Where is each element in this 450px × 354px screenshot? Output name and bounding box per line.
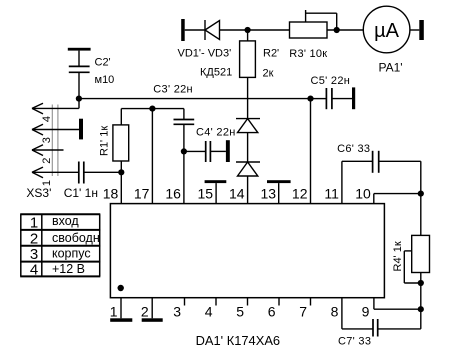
node G bbox=[181, 148, 187, 154]
svg-text:C3' 22н: C3' 22н bbox=[153, 84, 193, 96]
capacitor C3' bbox=[174, 109, 195, 204]
svg-text:15: 15 bbox=[198, 185, 214, 201]
node A bbox=[245, 27, 251, 33]
svg-text:R3' 10к: R3' 10к bbox=[289, 48, 327, 60]
label C2' bbox=[95, 56, 115, 86]
label uA bbox=[374, 20, 400, 42]
pin 7 stub bbox=[310, 298, 312, 306]
pin 10 lead bbox=[374, 194, 421, 204]
label R2' bbox=[263, 47, 280, 79]
svg-text:R2': R2' bbox=[263, 47, 279, 59]
terminal bar right of C4' bbox=[226, 140, 230, 162]
node H bbox=[418, 191, 424, 197]
svg-text:2: 2 bbox=[41, 158, 53, 164]
IC DA1' body bbox=[110, 204, 384, 298]
svg-text:+12 В: +12 В bbox=[52, 262, 85, 276]
label C3' bbox=[153, 84, 193, 96]
capacitor C1' bbox=[79, 162, 122, 184]
node E bbox=[118, 169, 124, 175]
node D bbox=[307, 96, 313, 102]
capacitor C7' bbox=[373, 319, 421, 337]
svg-text:XS3': XS3' bbox=[26, 186, 51, 200]
XS3' pin number 3 bbox=[41, 137, 53, 143]
terminal bar top-left bbox=[181, 19, 185, 41]
node F bbox=[149, 106, 155, 112]
XS3' pin number 1 bbox=[41, 180, 53, 186]
svg-text:3: 3 bbox=[41, 137, 53, 143]
svg-text:R4' 1к: R4' 1к bbox=[392, 241, 404, 271]
svg-text:18: 18 bbox=[103, 185, 119, 201]
svg-text:C1' 1н: C1' 1н bbox=[64, 186, 98, 200]
svg-text:9: 9 bbox=[362, 304, 370, 320]
terminal bar right of C5' bbox=[352, 87, 355, 109]
svg-text:4: 4 bbox=[41, 116, 53, 122]
label R3' bbox=[289, 48, 327, 60]
label XS3' bbox=[26, 186, 51, 200]
IC top pin numbers bbox=[103, 185, 371, 201]
svg-text:10: 10 bbox=[355, 185, 371, 201]
node B bbox=[334, 27, 340, 33]
pin 8 lead bbox=[342, 298, 373, 329]
pin 5 stub bbox=[247, 298, 249, 306]
label PA1' bbox=[379, 61, 403, 75]
svg-text:1: 1 bbox=[30, 215, 38, 232]
node J bbox=[418, 306, 424, 312]
pin 1 marker dot bbox=[118, 285, 124, 291]
label C5' bbox=[311, 75, 351, 87]
svg-text:13: 13 bbox=[261, 185, 277, 201]
table XS3 pinout bbox=[20, 214, 100, 276]
XS3' pin 4 bbox=[32, 103, 79, 114]
label R1' bbox=[99, 126, 111, 156]
label C1' bbox=[64, 186, 98, 200]
XS3' pin number 4 bbox=[41, 116, 53, 122]
svg-text:4: 4 bbox=[30, 262, 38, 279]
svg-text:C2': C2' bbox=[95, 56, 111, 68]
label C4' bbox=[196, 126, 236, 138]
terminal bar above C2' bbox=[68, 48, 91, 51]
pin 2 lead bbox=[151, 298, 153, 319]
pin 9 lead bbox=[374, 298, 421, 310]
svg-text:свободн: свободн bbox=[52, 231, 100, 245]
resistor R1' bbox=[113, 109, 129, 173]
diode VD2' bbox=[236, 119, 260, 162]
svg-text:C6' 33: C6' 33 bbox=[337, 143, 370, 155]
wire bbox=[185, 29, 205, 31]
wire net A bbox=[79, 98, 311, 100]
wire bbox=[410, 29, 419, 31]
XS3' pin number 2 bbox=[41, 158, 53, 164]
svg-text:C5' 22н: C5' 22н bbox=[311, 75, 351, 87]
IC bottom pin numbers bbox=[110, 304, 370, 320]
label C7' bbox=[338, 336, 371, 348]
node C bbox=[76, 96, 82, 102]
terminal bar pin 13 bbox=[267, 180, 291, 203]
pin 12 lead bbox=[310, 99, 312, 204]
svg-text:µА: µА bbox=[374, 20, 400, 42]
label C6' bbox=[337, 143, 370, 155]
pin 1 lead bbox=[120, 298, 122, 319]
pin 3 stub bbox=[184, 298, 186, 306]
right rail bbox=[420, 161, 422, 329]
wire bbox=[220, 29, 290, 31]
resistor R4' bbox=[404, 235, 429, 283]
pin 18 lead bbox=[120, 172, 122, 203]
diode VD3' bbox=[236, 162, 260, 204]
XS3' pin 1 bbox=[32, 167, 79, 178]
capacitor C5' bbox=[311, 88, 353, 109]
svg-text:6: 6 bbox=[268, 304, 276, 320]
svg-text:14: 14 bbox=[229, 185, 245, 201]
resistor R3' bbox=[290, 10, 337, 38]
svg-text:3: 3 bbox=[173, 304, 181, 320]
svg-text:DA1' К174ХА6: DA1' К174ХА6 bbox=[196, 333, 281, 348]
capacitor C6' bbox=[373, 151, 421, 173]
svg-text:2к: 2к bbox=[263, 67, 274, 79]
svg-text:4: 4 bbox=[205, 304, 213, 320]
wire bbox=[327, 29, 363, 31]
svg-text:R1' 1к: R1' 1к bbox=[99, 126, 111, 156]
svg-text:1: 1 bbox=[41, 180, 53, 186]
svg-text:VD1'- VD3': VD1'- VD3' bbox=[178, 48, 232, 60]
svg-text:корпус: корпус bbox=[52, 246, 91, 260]
label DA1' bbox=[196, 333, 281, 348]
terminal bar right of PA1' bbox=[419, 20, 424, 40]
svg-text:16: 16 bbox=[165, 185, 181, 201]
svg-text:12: 12 bbox=[292, 185, 308, 201]
diode VD1' bbox=[205, 20, 220, 40]
terminal bar pin 15 bbox=[205, 180, 227, 203]
node I bbox=[418, 280, 424, 286]
pin 11 lead bbox=[342, 161, 373, 203]
label VD1'-VD3' bbox=[178, 48, 233, 79]
resistor R2' bbox=[240, 30, 256, 119]
wire net B bbox=[121, 108, 184, 110]
label R4' bbox=[392, 241, 404, 271]
svg-text:2: 2 bbox=[141, 304, 149, 320]
connector XS3' body bbox=[52, 105, 58, 177]
meter PA1' bbox=[363, 6, 410, 53]
svg-text:2: 2 bbox=[30, 230, 38, 247]
svg-text:м10: м10 bbox=[95, 74, 115, 86]
svg-text:PA1': PA1' bbox=[379, 61, 403, 75]
XS3' pin 3 bbox=[32, 124, 79, 135]
ground bar pin 1 bbox=[110, 318, 132, 322]
svg-text:11: 11 bbox=[324, 185, 339, 201]
XS3' pin 2 bbox=[32, 145, 64, 156]
svg-text:5: 5 bbox=[236, 304, 244, 320]
svg-text:7: 7 bbox=[299, 304, 307, 320]
pin 4 stub bbox=[215, 298, 217, 306]
svg-text:вход: вход bbox=[52, 214, 79, 228]
pin 17 lead bbox=[151, 109, 153, 204]
ground bar pin 2 bbox=[142, 318, 163, 322]
svg-text:C7' 33: C7' 33 bbox=[338, 336, 371, 348]
svg-text:1: 1 bbox=[110, 304, 118, 320]
svg-text:C4' 22н: C4' 22н bbox=[196, 126, 236, 138]
pin 6 stub bbox=[278, 298, 280, 306]
table text bbox=[30, 215, 38, 279]
capacitor C2' bbox=[69, 51, 90, 109]
svg-text:8: 8 bbox=[331, 304, 339, 320]
terminal bar on pin 3 bbox=[79, 119, 83, 140]
capacitor C4' bbox=[184, 141, 226, 162]
svg-text:17: 17 bbox=[134, 185, 150, 201]
svg-text:КД521: КД521 bbox=[200, 66, 232, 78]
